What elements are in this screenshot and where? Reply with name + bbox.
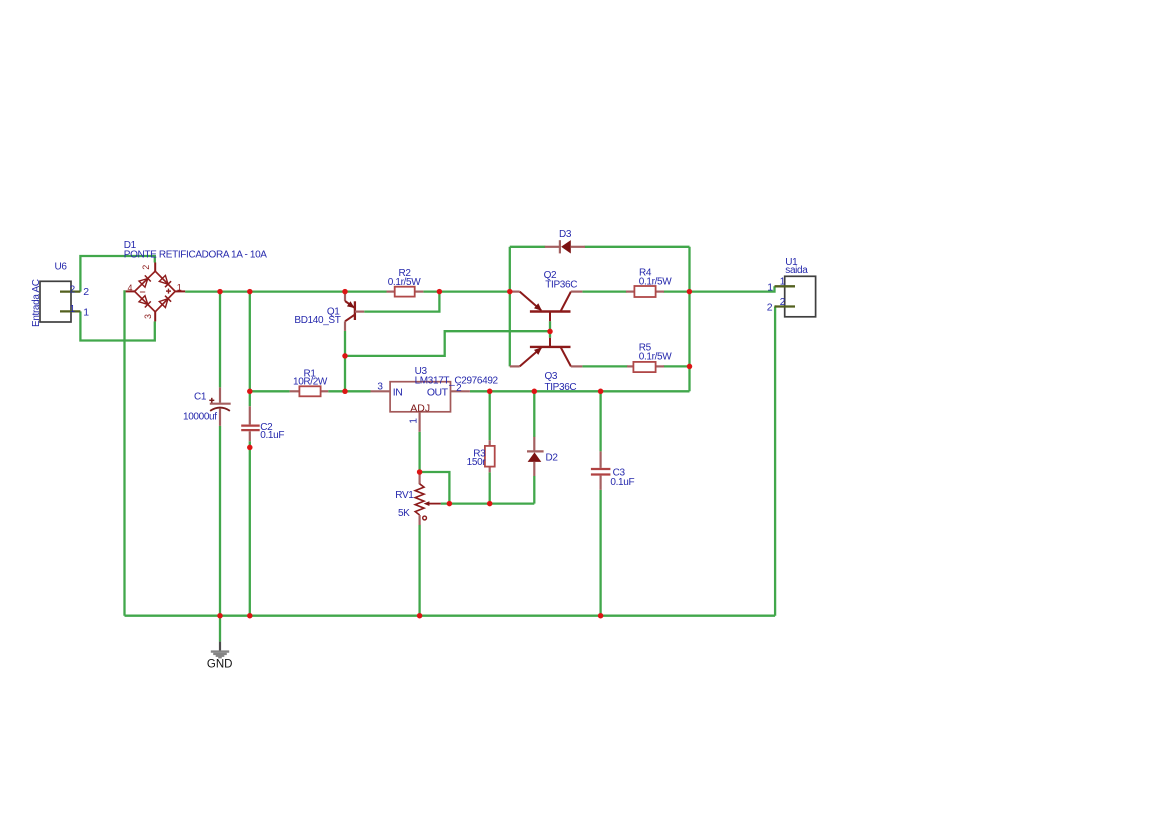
wire C1 branch lower [219,426,221,616]
wire D3 left riser [509,247,511,292]
wire C1 branch upper [219,292,221,388]
wire R4 to node [664,290,690,292]
transistor Q1 [345,294,364,331]
wire main rail R2 to Q2 node [423,290,509,292]
wire U6 pin2 to bridge pin2 [80,256,154,292]
node Q1 emitter [342,289,348,295]
node R2 right [437,289,443,295]
svg-text:1: 1 [767,281,773,293]
D1 plus mark [166,290,171,292]
connector U6 [40,281,80,322]
wire C2 branch lower [249,441,251,616]
wire OUT rail [470,390,690,392]
wire GND tap [219,616,221,642]
node C3 top [598,389,604,395]
node R3 bottom [487,501,493,507]
svg-text:TIP36C: TIP36C [545,382,577,393]
wire Q2 collector to R4 [582,290,626,292]
node C2 top [247,289,253,295]
wire Q1 collector to Q2 Q3 bases [345,331,550,356]
svg-text:PONTE RETIFICADORA 1A - 10A: PONTE RETIFICADORA 1A - 10A [124,250,267,261]
wire R1 to IN node [328,390,370,392]
D1 diode upper-left [139,279,148,288]
node wiper link [447,501,453,507]
svg-text:0.1r/5W: 0.1r/5W [639,352,672,363]
node Q2 Q3 base [547,329,553,335]
svg-text:2: 2 [70,284,76,295]
resistor R5 [627,362,664,372]
RV1 wiper arrow [429,503,441,505]
wire C2 node to R1 [250,390,290,392]
capacitor C1 [209,387,230,426]
svg-text:1: 1 [780,277,786,288]
svg-text:3: 3 [377,381,383,392]
connector U1 [775,276,816,317]
wire R5 to node [664,365,690,367]
node Q1 collector [342,353,348,359]
svg-text:2: 2 [780,297,786,308]
resistor R1 [290,386,329,396]
wire Q2 node down to Q3 emitter [509,292,511,367]
svg-text:10R/2W: 10R/2W [293,377,328,388]
wire bridge pin4 down left side [125,291,126,615]
svg-text:2: 2 [83,286,89,298]
transistor Q3 [510,338,583,367]
node rail C1 GND [217,613,223,619]
svg-text:2: 2 [456,383,462,394]
svg-text:D3: D3 [559,229,572,240]
D1 minus mark [140,291,145,293]
node rail C2 [247,613,253,619]
node C2 bottom [247,445,253,451]
svg-text:saida: saida [785,265,808,276]
capacitor C2 [241,406,260,441]
svg-text:BD140_ST: BD140_ST [294,315,340,326]
ground symbol GND [211,642,229,658]
potentiometer RV1 [415,472,441,525]
svg-text:GND: GND [207,659,233,671]
wire bottom ground rail [125,615,776,617]
node ADJ [417,469,423,475]
wire U6 pin1 to bridge pin3 [80,311,154,340]
svg-text:C1: C1 [194,392,207,403]
wire Q1 collector down to IN node [344,331,346,391]
wire wiper line [441,502,535,504]
svg-text:0.1uF: 0.1uF [260,430,284,441]
bridge rectifier D1 [126,263,186,322]
diode D2 [527,437,544,476]
svg-text:OUT: OUT [427,387,449,399]
wire RV1 bottom down [418,525,420,616]
D1 diode lower-right [159,299,168,308]
wire D2 branch upper [533,391,535,437]
wire main rail bridge to R2 [185,290,386,292]
resistor R3 [485,440,495,472]
wire Q1 base to R2 right node [364,292,439,312]
svg-text:D2: D2 [546,453,559,464]
wire D3 top left segment [510,246,546,248]
svg-text:U6: U6 [55,262,68,273]
node D2 top [532,389,538,395]
svg-text:ADJ: ADJ [410,402,430,414]
node IN line Q1 [342,389,348,395]
C1 plus mark [209,399,214,401]
svg-text:RV1: RV1 [395,490,414,501]
svg-text:2: 2 [767,302,773,314]
wire R3 branch upper [489,391,491,440]
svg-text:3: 3 [143,314,153,319]
resistor R4 [626,286,664,297]
transistor Q2 [510,292,583,322]
svg-text:1: 1 [409,418,420,424]
svg-text:0.1r/5W: 0.1r/5W [639,276,672,287]
svg-text:Entrada AC: Entrada AC [31,279,42,327]
capacitor C3 [591,451,611,490]
svg-text:4: 4 [127,283,132,293]
svg-text:5K: 5K [398,508,410,519]
wire C2 branch upper [249,292,251,407]
wire D2 branch lower [533,476,535,504]
diode D3 [545,240,585,253]
wire Q3 collector to R5 [582,365,627,367]
wire R3 branch lower [489,472,491,503]
svg-text:IN: IN [393,387,403,399]
wire ADJ to wiper link [420,472,450,504]
D1 diode lower-left [139,296,148,305]
svg-text:10000uf: 10000uf [183,412,217,423]
node C2 R1 [247,389,253,395]
svg-text:0.1uF: 0.1uF [610,477,634,488]
node R4 right [687,289,693,295]
svg-text:2: 2 [141,265,151,270]
node C1 top [217,289,223,295]
wire C3 branch lower [599,490,601,616]
node R3 top [487,389,493,395]
svg-text:150r: 150r [467,457,487,468]
wire right riser D3 to OUT rail [688,247,690,391]
wire D3 top right segment [585,246,690,248]
D1 diode upper-right [159,275,168,284]
svg-text:0.1r/5W: 0.1r/5W [388,277,421,288]
wire C3 branch upper [599,391,601,451]
svg-text:TIP36C: TIP36C [545,279,577,290]
regulator U3 [371,382,470,432]
wire node to U1 pin1 [689,286,774,291]
node rail RV1 [417,613,423,619]
svg-text:1: 1 [70,304,76,315]
resistor R2 [387,287,424,297]
wire ADJ down [418,432,420,472]
wire Q2 Q3 base node vertical [549,321,551,338]
svg-text:Q3: Q3 [545,371,558,382]
svg-text:1: 1 [83,306,89,318]
node rail C3 [598,613,604,619]
node R5 right [687,364,693,370]
node Q2 emitter D3 [507,289,513,295]
svg-text:1: 1 [177,283,182,293]
wire right riser to U1 pin2 [773,307,776,616]
